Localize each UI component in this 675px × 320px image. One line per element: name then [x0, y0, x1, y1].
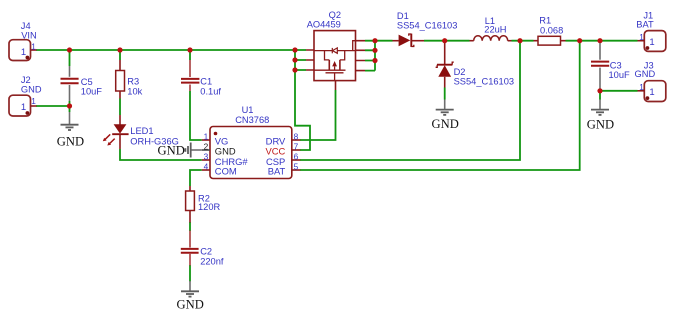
svg-text:J4: J4	[21, 21, 31, 31]
svg-text:6: 6	[294, 151, 299, 161]
junction R3 top	[117, 47, 122, 52]
wire BAT sense from R1 right to U1 pin5	[300, 41, 580, 170]
resistor R1	[534, 15, 566, 45]
inductor L1	[470, 16, 512, 41]
wire R2 bottom to C2	[189, 222, 191, 231]
resistor R3	[116, 60, 143, 99]
internal top rail with body diode	[314, 50, 356, 52]
svg-text:R3: R3	[127, 77, 139, 87]
wire VIN top rail	[36, 49, 295, 51]
wire D2 top segment	[444, 88, 446, 100]
wire Q2 gate to U1 DRV	[300, 90, 336, 140]
channel bar	[314, 69, 346, 71]
wire J2 to C5 junction	[36, 105, 70, 107]
svg-text:1: 1	[639, 32, 644, 42]
U1 pin 2 GND	[202, 149, 210, 151]
wire R3 top segment	[119, 50, 121, 60]
svg-text:SS54_C16103: SS54_C16103	[454, 76, 514, 86]
U1 pin 5 BAT	[292, 169, 301, 171]
wire L1 to R1	[512, 40, 534, 42]
wire LED1 cathode to U1 CHRG#	[120, 149, 202, 160]
svg-text:Q2: Q2	[329, 10, 341, 20]
bulk arrow	[332, 61, 337, 66]
junction R1 right BAT sense	[577, 38, 582, 43]
wire C1 bottom to U1 VG	[190, 91, 202, 140]
svg-text:C2: C2	[200, 247, 212, 257]
connector J1	[636, 10, 666, 51]
svg-text:LED1: LED1	[130, 126, 153, 136]
svg-text:4: 4	[204, 161, 209, 171]
junction J2/C5	[67, 103, 72, 108]
wire U1 COM to R2	[190, 170, 202, 186]
svg-text:SS54_C16103: SS54_C16103	[397, 21, 457, 31]
svg-text:R1: R1	[539, 15, 551, 25]
ground under D2	[432, 100, 459, 132]
svg-text:1: 1	[21, 102, 26, 113]
junction C5 top	[67, 47, 72, 52]
svg-text:1: 1	[639, 82, 644, 92]
U1 pin 7 VCC	[292, 149, 301, 151]
svg-text:0.068: 0.068	[540, 25, 563, 35]
junction Q2 right bus 2	[372, 48, 377, 53]
svg-text:8: 8	[294, 131, 299, 141]
svg-text:CN3768: CN3768	[235, 115, 269, 125]
ground under C2	[177, 281, 204, 312]
wire Q2 left bus down to VCC path	[295, 50, 310, 150]
svg-text:3: 3	[204, 151, 209, 161]
svg-text:GND: GND	[158, 143, 185, 157]
capacitor C5	[61, 66, 103, 101]
svg-text:22uH: 22uH	[484, 25, 506, 35]
ground under C5	[57, 112, 84, 148]
svg-text:GND: GND	[21, 85, 42, 95]
transistor Q2 AO4459 P-MOSFET	[306, 10, 365, 90]
svg-text:1: 1	[31, 41, 36, 51]
svg-text:COM: COM	[215, 166, 237, 177]
junction Q2 right bus 1	[372, 38, 377, 43]
junction D2 top	[442, 38, 447, 43]
connector J4	[9, 21, 37, 61]
op-amp U1 CN3768 charger IC	[210, 105, 292, 179]
U1 pin 1 VG	[202, 139, 210, 141]
junction C1 top	[187, 47, 192, 52]
svg-text:10uF: 10uF	[609, 70, 631, 80]
junction C3 top	[597, 38, 602, 43]
U1 pin 3 CHRG#	[202, 159, 210, 161]
junction Q2 left bus 3	[292, 67, 297, 72]
wire R3 bottom to LED1	[119, 99, 121, 116]
wire C2 bottom to GND	[189, 265, 191, 282]
svg-text:VIN: VIN	[21, 31, 37, 41]
svg-text:AO4459: AO4459	[307, 20, 341, 30]
svg-text:GND: GND	[635, 69, 656, 79]
svg-text:U1: U1	[242, 105, 254, 115]
svg-text:5: 5	[294, 161, 299, 171]
svg-text:GND: GND	[432, 117, 459, 131]
wire D1 cathode to L1 with D2 junction	[424, 40, 470, 42]
svg-text:BAT: BAT	[268, 166, 286, 177]
wire CSP sense from L1/R1 junction to U1 pin6	[300, 41, 520, 160]
svg-text:C1: C1	[200, 77, 212, 87]
svg-text:J2: J2	[21, 75, 31, 85]
right pins	[356, 41, 366, 71]
wire R1 right to J1	[566, 40, 638, 42]
wire C1 top segment	[189, 50, 191, 60]
connector J2	[9, 75, 42, 116]
capacitor C2	[181, 231, 224, 267]
U1 pin 4 COM	[202, 169, 210, 171]
wire Q2 right to D1 anode	[375, 40, 393, 42]
svg-text:1: 1	[31, 96, 36, 106]
junction L1/R1 CSP	[517, 38, 522, 43]
ground symbol at U1 pin 2	[158, 143, 202, 158]
wire Q2 left pin connections	[295, 50, 306, 70]
svg-text:120R: 120R	[198, 202, 221, 212]
left pins	[306, 50, 314, 70]
diode D2 schottky	[436, 43, 514, 88]
ground under C3	[587, 100, 614, 132]
junction C3 bottom / J3	[597, 88, 602, 93]
wire C5 bottom to J2 junction	[69, 101, 71, 112]
gate pin stub	[335, 81, 337, 90]
svg-text:1: 1	[204, 131, 209, 141]
wire C3 lower gnd segment	[599, 91, 601, 100]
connector J3	[635, 60, 666, 101]
wire C5 top segment	[69, 50, 71, 66]
svg-text:1: 1	[21, 47, 26, 58]
junction Q2 right bus 3	[372, 58, 377, 63]
svg-text:BAT: BAT	[636, 19, 654, 29]
wire Q2 right bus	[365, 41, 375, 71]
svg-text:0.1uf: 0.1uf	[200, 86, 221, 96]
svg-text:2: 2	[204, 141, 209, 151]
wire C3 bottom to J3	[600, 90, 638, 92]
gate plate	[326, 72, 344, 74]
svg-text:GND: GND	[587, 117, 614, 131]
svg-text:1: 1	[649, 87, 654, 98]
svg-text:1: 1	[649, 37, 654, 48]
svg-text:10uF: 10uF	[81, 87, 103, 97]
svg-text:10k: 10k	[127, 86, 142, 96]
svg-text:D1: D1	[397, 11, 409, 21]
resistor R2	[186, 186, 221, 223]
svg-text:GND: GND	[177, 298, 204, 312]
diode D1 schottky	[393, 11, 458, 47]
svg-text:7: 7	[294, 141, 299, 151]
capacitor C3	[591, 43, 630, 89]
internal drain link top right	[353, 41, 356, 51]
svg-text:C3: C3	[610, 60, 622, 70]
svg-text:GND: GND	[57, 134, 84, 148]
junction Q2 left bus 2	[292, 57, 297, 62]
svg-text:C5: C5	[81, 77, 93, 87]
LED LED1	[103, 115, 179, 149]
U1 pin 6 CSP	[292, 159, 301, 161]
svg-text:220nf: 220nf	[200, 256, 224, 266]
internal shoulders	[325, 51, 345, 60]
junction Q2 left bus 1	[292, 47, 297, 52]
U1 pin 8 DRV	[292, 139, 301, 141]
capacitor C1	[181, 60, 221, 96]
